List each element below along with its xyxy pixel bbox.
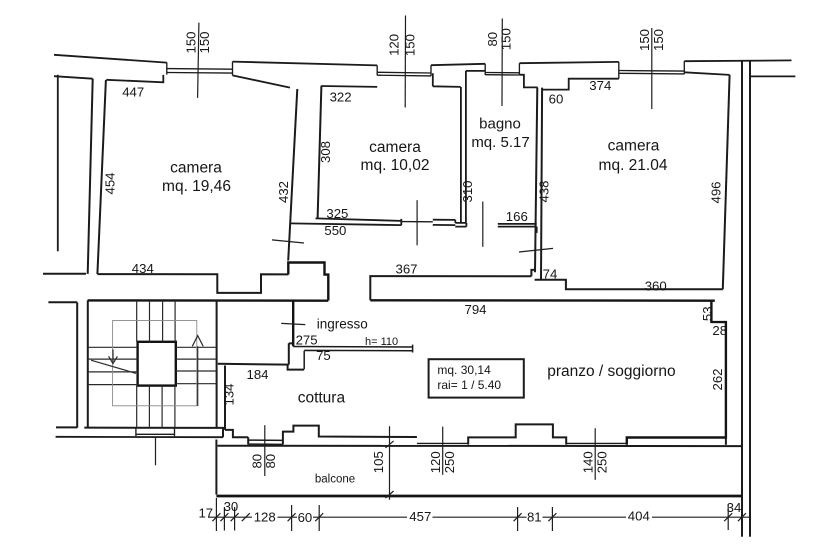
svg-text:404: 404: [628, 509, 650, 524]
stairs: left flight treads: [88, 347, 138, 384]
wall: camera 21.04 top inner right of W4: [684, 72, 729, 75]
svg-text:30: 30: [224, 499, 239, 514]
stairs: lower flight treads: [137, 386, 175, 428]
svg-text:mq. 30,14: mq. 30,14: [437, 363, 491, 377]
balcone top line: [218, 445, 742, 447]
wall: pranzo top: [370, 299, 715, 302]
svg-text:150: 150: [499, 28, 514, 50]
svg-text:438: 438: [536, 180, 551, 202]
door centerline bagno: [482, 202, 484, 247]
svg-text:134: 134: [222, 383, 237, 405]
stair door dimension line: [155, 437, 157, 465]
svg-text:457: 457: [409, 509, 431, 524]
svg-text:pranzo / soggiorno: pranzo / soggiorno: [547, 363, 675, 380]
svg-text:balcone: balcone: [315, 473, 355, 485]
svg-text:28: 28: [712, 323, 727, 338]
wall: ingresso left: [292, 301, 294, 347]
stairs: up arrow: [192, 336, 203, 406]
svg-text:150: 150: [183, 31, 198, 53]
bottom dimension line: [208, 516, 750, 518]
window W2 120: [377, 65, 431, 76]
wall: bagno top inner thin: [466, 70, 485, 72]
svg-text:mq. 5.17: mq. 5.17: [471, 134, 529, 151]
svg-text:mq. 10,02: mq. 10,02: [361, 157, 430, 174]
wall: bagno bottom right of door: [498, 224, 537, 233]
wall: cottura left (134): [224, 366, 226, 430]
svg-text:cottura: cottura: [298, 390, 346, 407]
info box mq 30,14: [429, 359, 524, 397]
door tick ingresso: [281, 323, 305, 324]
wall: step right of bagno window: [519, 75, 537, 88]
wall: hall left of stairs: [48, 302, 77, 427]
svg-text:166: 166: [506, 209, 528, 224]
svg-text:34: 34: [727, 500, 742, 515]
wall: stub between camera 10,02 door and bagno: [433, 220, 456, 225]
svg-text:360: 360: [645, 279, 667, 294]
wall: neighbour inner line top right: [751, 75, 796, 77]
wall: camera 21.04 top inner with 374/60 step: [542, 79, 619, 90]
svg-text:60: 60: [549, 92, 564, 107]
svg-text:322: 322: [330, 89, 352, 104]
svg-text:rai= 1 / 5.40: rai= 1 / 5.40: [437, 378, 501, 392]
wall: bagno / camera 21.04 shared: [535, 88, 542, 280]
wall: common hallway left line: [57, 75, 59, 252]
stairs: cut diagonal: [91, 360, 136, 373]
stairs: right flight treads: [176, 347, 217, 383]
dimension 550 end slashes: [272, 240, 553, 252]
svg-text:150: 150: [637, 29, 652, 51]
balcone window sills thin: [417, 442, 627, 444]
wall: camera 10,02 bottom: [290, 218, 401, 225]
balcony door 80 threshold: [248, 440, 283, 444]
bottom dimension slashes: [212, 513, 746, 521]
svg-text:105: 105: [371, 451, 386, 473]
svg-text:60: 60: [298, 510, 313, 525]
balcone left edge: [215, 440, 217, 495]
wall: bagno bottom left stub: [455, 223, 466, 227]
svg-text:447: 447: [122, 85, 144, 100]
wall: raised sill right of balcony door: [283, 426, 417, 445]
wall: cottura bottom jogs and balcony door: [225, 430, 248, 445]
svg-text:ingresso: ingresso: [317, 316, 368, 331]
svg-text:550: 550: [324, 223, 346, 238]
svg-text:262: 262: [710, 368, 725, 390]
dimension line window W3: [501, 19, 503, 107]
dimension line 140/250: [594, 428, 596, 480]
svg-text:80: 80: [263, 454, 278, 469]
dimension line window W4: [651, 28, 653, 109]
svg-text:camera: camera: [608, 138, 660, 155]
svg-text:75: 75: [316, 348, 331, 363]
svg-text:74: 74: [543, 266, 558, 281]
wall: top inner face camera 19,46: [106, 75, 163, 82]
wall: pier right end to balcony line: [725, 438, 727, 445]
window W1 150: [167, 62, 233, 76]
svg-text:275: 275: [296, 332, 318, 347]
svg-text:150: 150: [651, 29, 666, 51]
wall: stairwell bottom: [84, 428, 223, 438]
svg-text:496: 496: [709, 181, 724, 203]
svg-text:454: 454: [103, 172, 118, 194]
wall: 367 band top: [370, 276, 531, 300]
svg-text:374: 374: [589, 78, 611, 93]
svg-text:434: 434: [132, 261, 154, 276]
window W4 150: [619, 61, 685, 78]
stairs: upper flight treads: [137, 301, 175, 342]
svg-text:794: 794: [464, 302, 486, 317]
svg-text:325: 325: [326, 206, 348, 221]
dimension line 80/80 balcony door: [264, 425, 266, 476]
wall: stairwell left: [87, 300, 89, 427]
wall: camera 19,46 bottom with door notch: [97, 274, 288, 293]
svg-text:308: 308: [318, 141, 333, 163]
wall: thick wall between camera 19,46 and camera 10,02: [288, 86, 321, 261]
wall: pranzo right with 53/28 steps: [627, 301, 726, 445]
svg-text:432: 432: [276, 181, 291, 203]
door centerline camera 10,02: [416, 200, 418, 245]
dimension line 120/250: [442, 427, 444, 475]
svg-text:250: 250: [442, 451, 457, 473]
wall: stairwell right: [216, 301, 218, 428]
svg-text:128: 128: [254, 510, 276, 525]
wall: camera 19,46 left (double): [88, 79, 106, 274]
svg-text:17: 17: [198, 505, 213, 520]
bottom dimension extension verticals: [216, 498, 742, 531]
passage h=110 threshold double line: [293, 345, 412, 370]
wall: cottura top (184): [218, 343, 304, 369]
wall: ingresso bump: [288, 263, 328, 301]
stairs: elevator shaft: [138, 342, 176, 386]
wall: ingresso/stairs top: [88, 299, 329, 302]
wall: camera 21.04 right inner: [723, 75, 730, 289]
stair door recess: [136, 428, 175, 436]
svg-text:h= 110: h= 110: [365, 336, 398, 348]
wall: bottom wall extension outside left: [43, 273, 86, 275]
wall: building back line under stairs: [56, 436, 223, 438]
svg-text:184: 184: [246, 367, 268, 382]
svg-text:150: 150: [197, 31, 212, 53]
door threshold camera 10,02: [401, 221, 433, 223]
wall: step right of window W2: [321, 73, 461, 87]
wall: sill right of window W1 to thick wall: [233, 75, 291, 87]
wall: top exterior inner segment left of camera 19,46: [54, 76, 93, 79]
svg-text:150: 150: [403, 34, 418, 56]
svg-text:250: 250: [594, 451, 609, 473]
wall: bagno left (double): [461, 71, 466, 223]
wall: right exterior double: [742, 60, 750, 536]
wall: top exterior outer line: [54, 55, 792, 66]
svg-text:camera: camera: [369, 139, 421, 156]
svg-text:mq. 19,46: mq. 19,46: [162, 178, 231, 195]
svg-text:bagno: bagno: [479, 115, 521, 132]
window W3 80 (bagno): [485, 63, 519, 75]
svg-text:81: 81: [527, 510, 542, 525]
stairs: stairwell opening (gray): [113, 321, 197, 406]
wall: connector 367-band to bagno wall: [531, 270, 535, 276]
wall: balcony pier with 81 bump: [468, 424, 566, 444]
svg-text:310: 310: [460, 180, 475, 202]
svg-text:53: 53: [700, 306, 715, 321]
wall: camera 21.04 bottom: [535, 280, 723, 290]
svg-text:367: 367: [395, 261, 417, 276]
svg-text:120: 120: [386, 34, 401, 56]
dimension line window W2: [404, 16, 406, 108]
balcone bottom edge: [216, 495, 741, 498]
svg-text:camera: camera: [170, 160, 222, 177]
stairs: down arrow: [109, 350, 118, 364]
dimension line 105 balcony depth: [385, 426, 393, 500]
svg-text:mq. 21.04: mq. 21.04: [599, 157, 668, 174]
dimension line window W1: [198, 23, 199, 98]
